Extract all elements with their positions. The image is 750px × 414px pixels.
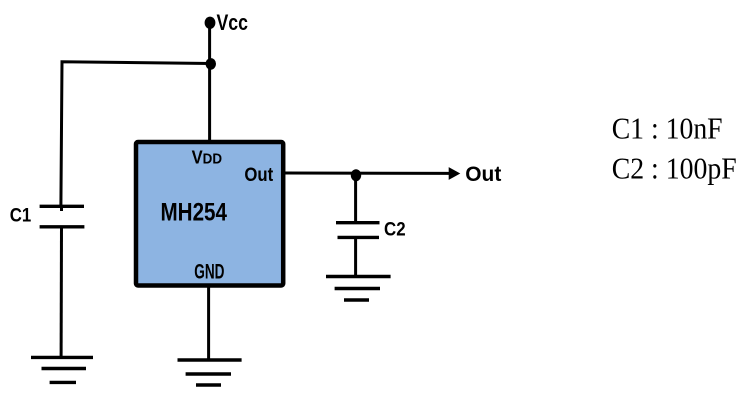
ground (left) line 2 [42, 367, 87, 370]
wire stub below C1 top plate [60, 206, 63, 211]
ground (middle) line 3 [196, 383, 221, 386]
node Vcc dot [205, 17, 216, 29]
wire GND pin down [207, 285, 210, 360]
svg-text:C1: C1 [10, 204, 32, 226]
wire Out horizontal [285, 172, 450, 175]
svg-text:C1 : 10nF: C1 : 10nF [612, 111, 723, 146]
node junction dot on Out net [351, 169, 361, 181]
svg-text:GND: GND [194, 260, 224, 283]
svg-text:VDD: VDD [192, 146, 222, 167]
ground (left) line 1 [31, 356, 93, 359]
svg-text:C2: C2 [384, 219, 406, 241]
ground (middle) line 1 [178, 358, 242, 361]
svg-text:Out: Out [465, 163, 501, 186]
capacitor C1 bottom plate [40, 225, 85, 228]
svg-text:MH254: MH254 [161, 199, 228, 226]
wire down to C2 [354, 175, 357, 223]
IC U1 MH254 body [136, 142, 283, 286]
wire Vcc vertical [208, 22, 211, 142]
capacitor C2 top plate [336, 221, 380, 224]
ground (right) line 3 [344, 298, 369, 301]
ground (right) line 2 [335, 287, 380, 290]
ground (middle) line 2 [186, 372, 231, 375]
wire branch to C1 (horizontal + left vertical) [61, 62, 211, 207]
svg-text:Vcc: Vcc [217, 10, 249, 35]
wire C2 to ground [354, 237, 357, 276]
ground (right) line 1 [326, 275, 391, 278]
capacitor C2 bottom plate [338, 236, 380, 239]
ground (left) line 3 [50, 381, 76, 384]
svg-text:C2 : 100pF: C2 : 100pF [612, 151, 737, 186]
node junction dot on Vcc rail [206, 58, 216, 70]
arrowhead Out [449, 167, 461, 180]
capacitor C1 top plate [40, 205, 84, 208]
wire C1 to ground [60, 227, 63, 358]
svg-text:Out: Out [244, 164, 273, 186]
